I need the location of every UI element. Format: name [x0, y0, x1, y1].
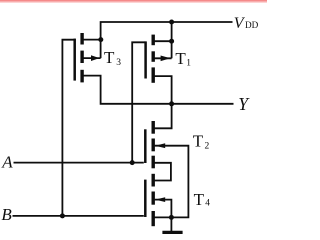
svg-text:T: T [193, 132, 204, 151]
svg-text:A: A [1, 153, 13, 172]
svg-text:4: 4 [205, 199, 210, 209]
svg-text:2: 2 [205, 141, 210, 151]
svg-text:T: T [194, 190, 205, 209]
svg-text:B: B [1, 205, 12, 224]
svg-text:Y: Y [238, 94, 250, 114]
svg-text:3: 3 [116, 58, 121, 68]
svg-text:DD: DD [245, 20, 259, 30]
svg-text:T: T [175, 49, 186, 68]
svg-text:V: V [234, 15, 246, 32]
svg-text:1: 1 [186, 59, 191, 69]
svg-text:T: T [104, 48, 115, 67]
